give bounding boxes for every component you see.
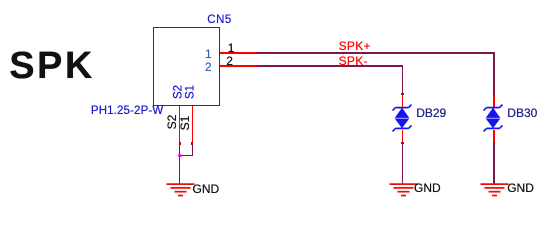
- label CN5: [207, 15, 232, 27]
- net SPK+ : vertical wire to DB30: [493, 52, 495, 93]
- pin S2 of CN5 (red pin line, vertical): [179, 106, 181, 144]
- wire S1 pin down: [192, 144, 194, 157]
- diode DB29 symbol: [391, 103, 413, 135]
- value label PH1.25-2P-W: [91, 106, 163, 118]
- GND label (left): [193, 183, 220, 195]
- DB29 top pin dot: [401, 93, 403, 95]
- pin 2 of CN5 (red pin line): [220, 65, 259, 67]
- pin 2 number (outside, black): [225, 55, 235, 67]
- pin S2 label (outside, black, rotated): [171, 121, 173, 123]
- ground under DB30: [480, 183, 509, 198]
- pin 1 number (inside, blue): [197, 48, 212, 60]
- wire DB29 to ground: [402, 144, 404, 185]
- pin S1 name (inside, blue, rotated): [190, 91, 192, 93]
- net label SPK+: [339, 40, 371, 52]
- pin S2 end dot: [179, 142, 181, 144]
- ground under DB29: [389, 183, 418, 198]
- pin S1 label (outside, black, rotated): [184, 122, 186, 124]
- wire S1 bend to junction: [179, 155, 193, 157]
- junction dot (magenta): [178, 154, 182, 158]
- diode DB30 symbol: [482, 103, 504, 135]
- wire S2 pin to junction: [179, 144, 181, 156]
- pin 1 of CN5 (red pin line): [220, 52, 259, 54]
- DB30 top pin dot: [493, 93, 495, 95]
- ground under CN5: [166, 183, 195, 198]
- title SPK: [9, 47, 95, 85]
- GND label (middle): [414, 182, 441, 194]
- wire DB30 to ground: [493, 144, 495, 185]
- DB29 top pin (red): [402, 93, 404, 108]
- designator DB29: [416, 107, 446, 119]
- GND label (right): [507, 182, 534, 194]
- designator DB30: [507, 107, 537, 119]
- DB30 top pin (red): [493, 93, 495, 108]
- pin S1 of CN5 (red pin line, vertical): [192, 106, 194, 144]
- wire junction to ground: [179, 156, 181, 184]
- pin 2 number (inside, blue): [197, 61, 212, 73]
- DB30 bottom pin dot: [493, 142, 495, 144]
- pin S2 name (inside, blue, rotated): [178, 91, 180, 93]
- net SPK- : horizontal wire: [258, 65, 403, 67]
- pin 2 end dot: [257, 65, 259, 67]
- net label SPK-: [339, 55, 368, 67]
- net SPK+ : horizontal wire: [258, 52, 494, 54]
- DB30 bottom pin (red): [493, 130, 495, 144]
- DB29 bottom pin dot: [401, 142, 403, 144]
- DB29 bottom pin (red): [402, 130, 404, 144]
- pin 1 number (outside, black): [226, 42, 236, 54]
- net SPK- : vertical wire to DB29: [402, 65, 404, 93]
- connector CN5 body: [153, 27, 220, 106]
- pin 1 end dot: [257, 52, 259, 54]
- pin S1 end dot: [191, 142, 193, 144]
